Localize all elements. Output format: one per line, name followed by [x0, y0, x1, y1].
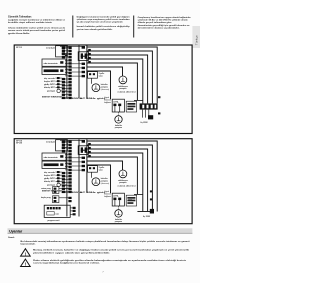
wire to controller (diagram 1)	[87, 71, 111, 99]
svg-text:LR NL: LR NL	[113, 101, 119, 103]
terminal strip X2 left column terminals	[62, 141, 65, 193]
wire pin marks (diagram 1)	[88, 49, 91, 63]
clock thermostat box KT1	[42, 67, 66, 74]
svg-text:emniyet: emniyet	[46, 141, 55, 144]
cable loop wire 4 (diagram 2)	[87, 153, 143, 212]
svg-text:Cihaza müdahaleler sadece yetk: Cihaza müdahaleler sadece yetkili servis…	[8, 26, 66, 29]
mains cable below block	[141, 110, 154, 124]
header column 3 text	[138, 16, 191, 30]
room thermostat box RT2	[42, 153, 66, 160]
wire relay to mains (diagram 2)	[134, 193, 143, 195]
wire relay to mains (diagram 1)	[134, 99, 143, 101]
heating pump P1c	[115, 112, 123, 129]
header column 1: safety instructions text	[8, 16, 66, 35]
svg-text:(aksesuar): (aksesuar)	[101, 182, 110, 185]
svg-text:boyler NTC: boyler NTC	[44, 175, 56, 177]
general paragraph	[21, 240, 190, 246]
strip top feed wire (diagram 2)	[60, 139, 85, 141]
svg-text:Bu kılavuzdaki montaj talimatl: Bu kılavuzdaki montaj talimatlarına uyul…	[21, 240, 190, 243]
svg-text:EF 1/2: EF 1/2	[16, 47, 22, 49]
svg-text:şirketince veya onaylanmış yet: şirketince veya onaylanmış yetkili servi…	[77, 18, 131, 21]
control module box (diagram 1)	[112, 99, 124, 112]
svg-text:boyler prog.: boyler prog.	[41, 197, 52, 199]
svg-text:pompası: pompası	[115, 127, 123, 129]
svg-text:sonra topraklama bağlantısını: sonra topraklama bağlantısını kontrol ed…	[33, 262, 101, 265]
heating pump P2c	[115, 206, 123, 223]
svg-text:fiş 230V: fiş 230V	[143, 216, 151, 218]
header column 2 text	[77, 15, 131, 30]
svg-text:hasarlı kablolar yetkili servi: hasarlı kablolar yetkili servislerce değ…	[77, 25, 131, 28]
room thermostat box RT1	[42, 59, 66, 66]
svg-text:!: !	[25, 262, 27, 267]
svg-text:saat: saat	[55, 213, 59, 216]
svg-text:pompası: pompası	[119, 88, 127, 90]
svg-text:kesinlikle riayet edilmesi mut: kesinlikle riayet edilmesi mutlaka isten…	[8, 21, 52, 24]
controller notes (diagram 2)	[104, 191, 111, 198]
svg-text:vana: vana	[99, 170, 103, 172]
cable loop wire 3 (diagram 1)	[87, 55, 148, 103]
svg-text:program saati: program saati	[48, 219, 60, 222]
cable loop wire 3 (diagram 2)	[87, 149, 148, 212]
strip top feed wire (diagram 1)	[60, 45, 85, 47]
circulation pump P1a	[118, 76, 128, 90]
svg-text:kapsamındadır.: kapsamındadır.	[21, 243, 36, 246]
side pin marks (diagram 1)	[158, 96, 160, 114]
diagram 1 frame	[14, 45, 192, 134]
svg-text:(aksesuar): (aksesuar)	[101, 88, 110, 91]
svg-text:pompası: pompası	[115, 221, 123, 223]
svg-text:ya da onaylı format servisince: ya da onaylı format servisince yapılmalı	[77, 21, 123, 24]
terminal tie wires (diagram 2)	[65, 54, 82, 191]
svg-text:Doğalgaz tesisatının kontrolü: Doğalgaz tesisatının kontrolü yetkili ga…	[77, 15, 130, 18]
relay box (diagram 2)	[126, 195, 136, 206]
controller notes (diagram 1)	[104, 97, 111, 104]
pump aux circle row (diagram 1)	[47, 89, 67, 92]
svg-text:şebekede 1N AC ve 230 V/50 Hz: şebekede 1N AC ve 230 V/50 Hz şeklinde o…	[138, 19, 188, 22]
header column separator 1	[72, 16, 74, 38]
wire pin marks (diagram 2)	[88, 143, 91, 157]
wire to circulation pump (diagram 1)	[87, 67, 123, 76]
svg-text:EMNİYET TERMOSTATI: EMNİYET TERMOSTATI	[42, 95, 62, 98]
sensor input rows (diagram 1)	[44, 77, 62, 89]
programmer clock input 1 (diagram 2)	[41, 187, 68, 194]
header column separator 2	[133, 16, 135, 38]
svg-text:dış sensör: dış sensör	[44, 172, 55, 174]
svg-text:Onaylanmış kurallara tam uygun: Onaylanmış kurallara tam uygun olarak ba…	[138, 16, 191, 19]
mains terminal block (diagram 1)	[140, 103, 158, 109]
mains cable U-route (diagram 2)	[137, 209, 154, 218]
svg-text:ülkede geçerli talimatlara gör: ülkede geçerli talimatlara göre	[138, 21, 173, 24]
svg-text:ısıtma devresi: ısıtma devresi	[118, 90, 137, 93]
svg-text:ısıtma devresi: ısıtma devresi	[118, 184, 137, 187]
boiler pump P2b	[92, 172, 110, 185]
safety pressure switch S2	[46, 140, 67, 151]
svg-text:yerine tam olarak getirilmelid: yerine tam olarak getirilmelidir.	[77, 28, 113, 31]
svg-text:denetimlere daima uyulmalıdır.: denetimlere daima uyulmalıdır.	[138, 27, 180, 30]
wire to circulation pump (diagram 2)	[87, 161, 123, 170]
svg-text:dönüş NTC: dönüş NTC	[44, 87, 56, 89]
clock thermostat box KT2	[42, 161, 66, 168]
terminal strip X1 inner column terminals	[68, 47, 71, 99]
svg-text:bağlantı: bağlantı	[104, 195, 111, 198]
svg-text:emniyet: emniyet	[46, 47, 55, 50]
svg-text:gidiş NTC: gidiş NTC	[44, 178, 56, 180]
warning triangle 2	[21, 259, 31, 267]
svg-text:7: 7	[102, 272, 104, 274]
svg-text:!: !	[25, 251, 27, 256]
cable loop wire 2 (diagram 2)	[87, 145, 152, 212]
mains plug symbol (diagram 1)	[78, 52, 88, 61]
warning triangle 1	[21, 249, 31, 257]
output terminal column (diagram 1)	[82, 46, 85, 77]
pump aux circle row (diagram 2)	[47, 183, 67, 187]
cable loop wire 4 (diagram 1)	[87, 59, 143, 103]
svg-text:aşağıdaki emniyet kurallarına: aşağıdaki emniyet kurallarına ve tedbirl…	[8, 18, 66, 21]
terminal strip X1 outline	[67, 45, 87, 98]
svg-text:vana: vana	[99, 76, 103, 78]
cable loop wire 1 (diagram 2)	[87, 141, 157, 212]
svg-text:pompası: pompası	[119, 182, 127, 184]
svg-text:pompa: pompa	[47, 91, 56, 93]
circulation pump P2a	[118, 170, 128, 184]
warning item 1 text	[33, 249, 190, 255]
strip extension terminals (diagram 2)	[68, 188, 71, 203]
svg-text:Montaj, elektrik tesisatı, kal: Montaj, elektrik tesisatı, kalorifer ve …	[33, 249, 190, 252]
svg-text:ısıtma prog.: ısıtma prog.	[41, 187, 51, 190]
cable loop wire 2 (diagram 1)	[87, 51, 152, 103]
wire to relay area (diagram 2)	[87, 157, 137, 194]
boiler pump P1b	[92, 78, 110, 91]
mains plug symbol (diagram 2)	[78, 146, 88, 155]
warning item 2 text	[33, 259, 186, 265]
terminal strip X2 outline	[67, 139, 87, 216]
svg-text:gidiş NTC: gidiş NTC	[44, 84, 56, 86]
programmer clock input 2 (diagram 2)	[41, 196, 69, 203]
side pin marks (diagram 2)	[128, 190, 153, 201]
terminal tie wires (diagram 1)	[65, 48, 82, 98]
warnings section header bar	[8, 228, 193, 233]
svg-text:L N 230V AC 50Hz giriş: L N 230V AC 50Hz giriş	[62, 191, 108, 194]
svg-text:yönetmeliklere uygun olarak ta: yönetmeliklere uygun olarak tam gerçekle…	[33, 251, 111, 254]
relay box (diagram 1)	[126, 101, 136, 112]
svg-text:oda termostatı: oda termostatı	[44, 156, 59, 159]
terminal strip X2 inner column terminals	[68, 141, 71, 193]
svg-text:dönüş NTC: dönüş NTC	[44, 181, 56, 183]
language tab (right edge)	[192, 26, 200, 48]
svg-text:Genel:: Genel:	[8, 237, 15, 239]
svg-text:Türkçe: Türkçe	[195, 34, 198, 45]
svg-text:bağlantı: bağlantı	[104, 101, 111, 104]
svg-text:getirilmelidir.: getirilmelidir.	[8, 32, 31, 35]
timer module box (diagram 2)	[44, 205, 75, 222]
three way valve box (diagram 2)	[88, 166, 105, 173]
svg-text:EP 2/E: EP 2/E	[16, 143, 23, 145]
wire to controller (diagram 2)	[87, 165, 111, 193]
svg-text:oda termostatı: oda termostatı	[44, 62, 59, 65]
control module box (diagram 2)	[112, 193, 124, 206]
svg-text:Ünite cihaza elektrik geldiğin: Ünite cihaza elektrik geldiğinde gerilim…	[33, 259, 186, 262]
output terminal column (diagram 2)	[82, 140, 85, 171]
three way valve box (diagram 1)	[88, 72, 105, 79]
cable loop wire 1 (diagram 1)	[87, 47, 157, 103]
diagram 2 frame	[14, 139, 192, 224]
safety pressure switch S1	[46, 46, 67, 57]
svg-text:LR NL: LR NL	[113, 195, 119, 197]
svg-text:Uyarılar: Uyarılar	[9, 229, 23, 233]
wire to relay area (diagram 1)	[87, 63, 137, 100]
svg-text:L N 230V AC 50Hz giriş: L N 230V AC 50Hz giriş	[62, 97, 108, 100]
svg-text:boyler NTC: boyler NTC	[44, 81, 56, 83]
terminal strip X1 left column terminals	[62, 47, 65, 99]
svg-text:Güvenlik Talimatları:: Güvenlik Talimatları:	[8, 16, 32, 19]
svg-text:Garantimizin geçerliliği için: Garantimizin geçerliliği için gerekli de…	[138, 24, 191, 27]
svg-text:uzman servis teknik personeli: uzman servis teknik personeli tarafından…	[8, 29, 65, 32]
sensor input rows (diagram 2)	[44, 171, 62, 183]
svg-text:fiş 230V: fiş 230V	[141, 122, 149, 124]
svg-text:dış sensör: dış sensör	[44, 78, 55, 80]
